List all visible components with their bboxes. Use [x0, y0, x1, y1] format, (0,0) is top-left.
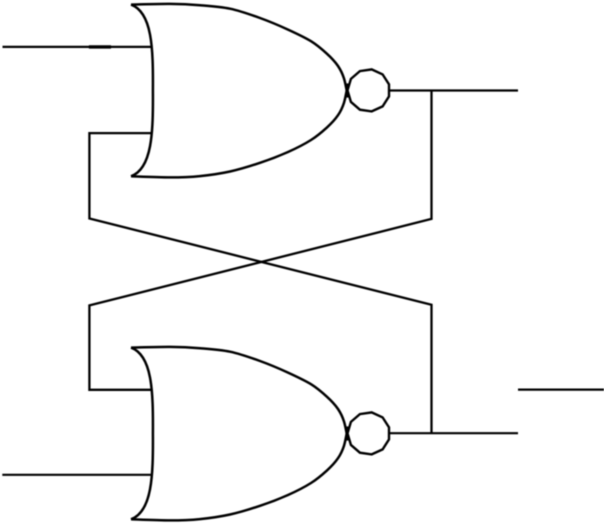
NOR gate U1 (top) [131, 4, 348, 178]
output bubble U2 [348, 412, 390, 454]
wire right stub (lower right) [518, 389, 604, 391]
wire input S overlap segment [89, 45, 111, 48]
NOR gate U2 (bottom) [131, 347, 348, 521]
wire input R (bottom gate input 2) [2, 474, 151, 476]
wire feedback A: top gate input 2 to bottom output junction [89, 133, 431, 433]
output bubble U1 [348, 69, 390, 111]
wire input S (top gate input 1) [3, 46, 151, 48]
wire output Q (top gate output) [390, 89, 518, 91]
wire feedback B: bottom gate input 1 to top output junction [89, 91, 431, 390]
wire output Q-bar (bottom gate output) [390, 432, 518, 434]
